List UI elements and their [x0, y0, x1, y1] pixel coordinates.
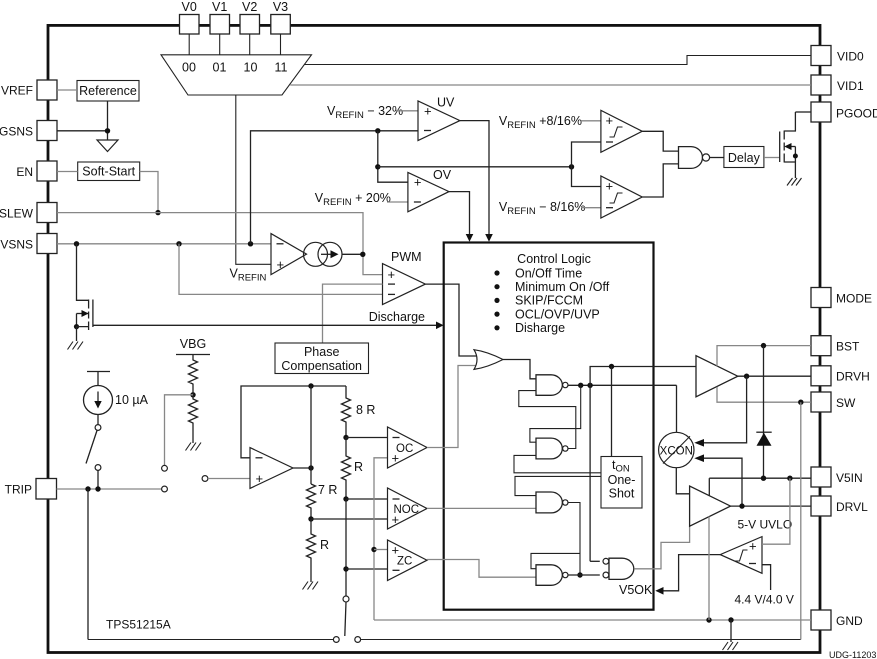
OR gate [474, 350, 503, 370]
svg-text:5-V UVLO: 5-V UVLO [738, 518, 793, 532]
comparator A (pgood high) [601, 110, 642, 152]
svg-text:+: + [256, 471, 264, 486]
node VSNS uv/ov tap [248, 241, 253, 246]
wire VSNS to UV - input [251, 131, 419, 244]
wire XCON feed [676, 385, 678, 432]
wire driver to SW [717, 387, 811, 402]
node VSNS pwm tap [176, 241, 181, 246]
wire NOC - input [346, 498, 388, 500]
wire opamp feedback [241, 386, 346, 458]
wire OC output to OR input [427, 366, 478, 448]
svg-text:OV: OV [433, 168, 452, 182]
wire mux to VID0 [304, 56, 811, 65]
pin MODE [811, 288, 872, 308]
svg-text:+: + [388, 267, 396, 282]
wire GSNS to ground node [57, 130, 108, 132]
current source gm output [304, 242, 343, 266]
wire SW down to bottom rail [800, 402, 802, 639]
ground (signal gnd triangle) [97, 140, 118, 152]
node V5IN diode tap [761, 476, 766, 481]
arrow discharge into control logic [436, 322, 444, 330]
NAND N1 [536, 375, 568, 396]
wire N4 output to V5OK gate input B [568, 574, 600, 576]
svg-text:ZC: ZC [397, 556, 412, 568]
wire V2 to mux [249, 34, 251, 55]
wire ZC - input [346, 568, 388, 570]
pin VSNS [0, 234, 57, 254]
svg-text:VSNS: VSNS [0, 238, 33, 252]
svg-text:+: + [414, 175, 422, 190]
wire TRIP pin to contacts [57, 488, 162, 490]
wire VREFIN+20% to OV - [387, 201, 408, 203]
switch lower contact [95, 465, 101, 471]
soft-start block [78, 162, 140, 181]
resistor R lower-left [307, 519, 316, 582]
svg-text:V1: V1 [212, 0, 227, 14]
node 8R bottom / OC - [343, 435, 348, 440]
node feedback top [308, 383, 313, 388]
phase compensation block [275, 343, 369, 374]
pin VID1 [811, 75, 864, 95]
node TRIP b [95, 486, 100, 491]
pin SW [811, 392, 856, 412]
arrow V5OK into box [655, 587, 663, 595]
svg-text:Phase: Phase [304, 345, 339, 359]
wire tON to N3 input [515, 476, 601, 495]
node R bottom / NOC - [343, 496, 348, 501]
wire ladder down to ZC - [345, 499, 347, 596]
wire bottom rail right to SW [361, 639, 801, 641]
svg-text:XCON: XCON [660, 445, 693, 457]
svg-text:+: + [424, 103, 432, 118]
svg-text:10 µA: 10 µA [115, 393, 149, 407]
op-amp NOC comparator [388, 488, 428, 529]
wire DRVH output [738, 375, 811, 377]
svg-text:11: 11 [275, 61, 288, 75]
VBG rail bar [176, 354, 210, 356]
wire OR output to NAND1 [503, 360, 536, 379]
wire VSNS to PWM input 3 [179, 244, 383, 295]
wire output to top rail [310, 386, 312, 484]
svg-text:PWM: PWM [391, 250, 422, 264]
wire UV branch down to OV + [378, 131, 408, 182]
svg-text:Disharge: Disharge [515, 321, 565, 335]
svg-text:DRVH: DRVH [836, 370, 870, 384]
arrow OV into control logic [466, 234, 474, 242]
svg-text:Compensation: Compensation [281, 359, 362, 373]
node N4 out [577, 572, 582, 577]
resistor VBG upper [189, 355, 198, 391]
node OV plus branch [375, 164, 380, 169]
pin BST [811, 336, 860, 356]
svg-text:TRIP: TRIP [5, 483, 32, 497]
svg-text:GND: GND [836, 614, 863, 628]
bottom switch contact right [355, 637, 361, 643]
wire V5IN to UVLO + [762, 478, 790, 544]
wire low driver to GND rail [708, 517, 710, 621]
svg-text:4.4 V/4.0 V: 4.4 V/4.0 V [735, 593, 794, 607]
wire V0 to mux [188, 34, 190, 55]
control logic block frame [444, 243, 654, 610]
wire V3 to mux [280, 34, 282, 55]
wire N1 node to driver rail [590, 367, 696, 562]
node soft-start / SLEW [155, 210, 160, 215]
node N1 out a [578, 383, 583, 388]
pin DRVH [811, 366, 870, 386]
svg-text:+: + [392, 512, 400, 527]
svg-text:Delay: Delay [728, 151, 761, 165]
svg-text:On/Off Time: On/Off Time [515, 266, 582, 280]
node BST diode tap [761, 343, 766, 348]
svg-text:Minimum On /Off: Minimum On /Off [515, 280, 610, 294]
svg-text:VBG: VBG [180, 337, 206, 351]
node DRVL tap [739, 503, 744, 508]
svg-text:SW: SW [836, 396, 856, 410]
pin V3 [271, 0, 291, 34]
wire N1 output to XCON [568, 384, 677, 386]
wire DRVH to XCON arrow [704, 376, 747, 443]
svg-text:V5IN: V5IN [836, 471, 863, 485]
pin V5IN [811, 467, 863, 487]
wire soft-start to SLEW line [140, 172, 158, 213]
wire VBG resistor to ground [192, 431, 194, 443]
svg-text:+: + [392, 451, 400, 466]
svg-text:Shot: Shot [609, 487, 635, 501]
wire current source to PWM node [342, 253, 363, 255]
transistor pgood FET [780, 112, 798, 178]
contact opamp side [202, 476, 208, 482]
wire TRIP down to bottom rail [87, 489, 89, 640]
op-amp OCP buffer [250, 448, 293, 489]
svg-text:One-: One- [608, 473, 636, 487]
node GND driver tap [706, 617, 711, 622]
diode bootstrap [756, 346, 771, 479]
pin EN [16, 161, 57, 181]
wire VREFIN-32% to UV + [396, 110, 418, 112]
node PWM + / slew [360, 252, 365, 257]
op-amp ZC comparator [388, 540, 428, 581]
svg-text:V2: V2 [242, 0, 257, 14]
wire +8/16% to comparator A + [581, 120, 601, 122]
pin VID0 [811, 46, 864, 66]
wire contact to opamp + [208, 478, 250, 480]
wire N2 out to N1 input (latch) [519, 391, 576, 449]
NAND N3 [536, 492, 568, 513]
op-amp VREFIN error amp [230, 234, 307, 284]
resistor 7R [307, 484, 316, 519]
svg-text:Discharge: Discharge [369, 310, 425, 324]
wire reference to ground node [107, 101, 109, 140]
delay block [724, 147, 764, 168]
wire UV output to control logic [460, 121, 489, 235]
pin GSNS [0, 121, 57, 141]
svg-text:Reference: Reference [79, 84, 137, 98]
svg-text:TPS51215A: TPS51215A [106, 618, 171, 632]
ground under R ladder [303, 582, 319, 590]
svg-text:VID0: VID0 [837, 50, 864, 64]
switch top contact [95, 425, 101, 431]
node 8/16 branch [569, 164, 574, 169]
op-amp OV comparator [408, 168, 452, 212]
switch blade (open) [86, 431, 97, 464]
node 7R bottom [308, 516, 313, 521]
contact VBG side [162, 465, 168, 471]
wire opamp output [293, 467, 311, 469]
svg-text:01: 01 [213, 61, 227, 75]
svg-text:V5OK: V5OK [619, 583, 653, 597]
contact TRIP side [162, 486, 168, 492]
ground at GND rail [723, 642, 739, 650]
pin DRVL [811, 496, 868, 516]
op-amp PWM comparator [383, 250, 426, 305]
resistor R mid [342, 438, 351, 500]
wire to comparator A - input [572, 142, 601, 167]
wire OCP node to GND rail [374, 619, 811, 621]
tON one-shot block [601, 457, 642, 509]
wire VREF to reference [57, 89, 77, 91]
pin PGOOD [811, 102, 877, 122]
wire N3 output down [568, 503, 580, 576]
ground under pgood fet [787, 178, 802, 186]
node UV minus branch [375, 128, 380, 133]
svg-text:Control Logic: Control Logic [517, 252, 591, 266]
wire SLEW to PWM + node [57, 213, 383, 275]
node ZC - tap [343, 566, 348, 571]
svg-text:SKIP/FCCM: SKIP/FCCM [515, 294, 583, 308]
svg-text:VID1: VID1 [837, 79, 864, 93]
node VBG divider tap [190, 392, 195, 397]
node SW tap [798, 400, 803, 405]
control logic title and bullets [494, 252, 609, 335]
wire BST to driver [717, 346, 811, 367]
node ZC + tap [371, 547, 376, 552]
AND gate V5OK (bubbled inputs) [603, 558, 634, 579]
svg-text:UDG-11203: UDG-11203 [829, 650, 876, 659]
pin V1 [210, 0, 230, 34]
wire delay to pgood fet gate [764, 157, 780, 159]
wire V5IN rail [709, 477, 811, 479]
wire V5IN to low driver [708, 478, 710, 496]
node TRIP a [85, 486, 90, 491]
wire DRVL output [731, 505, 812, 507]
wire NOC output to N3 input [427, 507, 536, 509]
svg-text:V0: V0 [182, 0, 197, 14]
op-amp OC comparator [388, 427, 428, 468]
svg-text:+: + [606, 179, 614, 194]
svg-text:BST: BST [836, 340, 860, 354]
op-amp 5V UVLO comparator [720, 537, 762, 574]
wire -8/16% to comparator B - [581, 207, 601, 209]
wire drop to tON one-shot [611, 367, 613, 457]
wire ZC + input [374, 549, 388, 551]
wire GND tap to ground [730, 620, 732, 642]
svg-text:DRVL: DRVL [836, 500, 868, 514]
wire NOC + input [311, 518, 388, 520]
wire N1 out to N2 input [530, 385, 581, 442]
wire phase compensation to PWM - input [323, 284, 383, 343]
comparator B (pgood low) [601, 176, 642, 218]
wire XCON to low driver input [676, 468, 689, 494]
svg-text:VREF: VREF [1, 84, 33, 98]
mux DAC selector [161, 55, 312, 95]
wire contact to TRIP line [97, 470, 99, 489]
wire UVLO - threshold stub [762, 565, 771, 590]
wire feedback to 8/16 comparators [378, 166, 572, 168]
ground under discharge fet [68, 342, 84, 350]
node VSNS discharge tap [74, 241, 79, 246]
reference block [77, 81, 139, 102]
node opamp output [308, 465, 313, 470]
wire tON to N2 input [514, 455, 601, 472]
svg-text:+: + [749, 539, 757, 554]
wire OV output to control logic [449, 192, 470, 235]
transistor discharge FET [74, 244, 93, 341]
svg-text:SLEW: SLEW [0, 207, 34, 221]
svg-text:R: R [354, 460, 363, 474]
buffer high-side driver [696, 356, 738, 397]
pin TRIP [5, 479, 57, 500]
NAND N4 [536, 565, 568, 586]
svg-text:7 R: 7 R [318, 483, 337, 497]
wire N1 node to V5OK gate input A [590, 560, 600, 562]
svg-text:8 R: 8 R [356, 403, 375, 417]
NAND pgood gate [679, 147, 710, 169]
svg-text:+: + [277, 257, 285, 272]
pin V0 [180, 0, 200, 34]
wire discharge gate to control logic [93, 324, 437, 326]
arrow into XCON lower [694, 454, 704, 462]
current source 10uA [84, 372, 149, 415]
wire EN to soft-start [57, 171, 78, 173]
svg-text:V3: V3 [273, 0, 288, 14]
svg-text:R: R [320, 538, 329, 552]
wire N3 loop to N4 input [531, 553, 580, 568]
wire UVLO comparator to V5OK arrow [663, 555, 720, 591]
svg-text:GSNS: GSNS [0, 125, 33, 139]
NAND N2 [536, 438, 568, 459]
wire DRVL to XCON arrow [704, 458, 742, 506]
node tON drop [609, 364, 614, 369]
svg-text:MODE: MODE [836, 292, 872, 306]
wire OC - input [346, 437, 388, 439]
op-amp UV comparator [418, 96, 460, 141]
pin SLEW [0, 203, 57, 223]
svg-text:EN: EN [16, 165, 33, 179]
node GND symbol tap [728, 617, 733, 622]
wire NAND to delay [710, 157, 724, 159]
bottom switch contact left [333, 637, 339, 643]
pin GND [811, 610, 863, 630]
wire bottom rail left [88, 639, 333, 641]
wire to comparator B + input [572, 167, 601, 187]
wire mux output VREFIN to error amp + input [236, 95, 271, 264]
ground under VBG divider [186, 443, 202, 451]
wire 10uA to switch [97, 415, 99, 425]
svg-text:PGOOD: PGOOD [836, 107, 877, 121]
wire comparator B to NAND [642, 164, 678, 197]
svg-text:OCL/OVP/UVP: OCL/OVP/UVP [515, 307, 600, 321]
svg-text:+: + [606, 113, 614, 128]
svg-text:10: 10 [244, 61, 258, 75]
arrow into XCON upper [694, 439, 704, 447]
wire comparator A to NAND [642, 131, 678, 151]
node V5IN uvlo tap [787, 476, 792, 481]
wire mux to VID1 [290, 84, 811, 86]
wire ZC output to N4 input [427, 560, 536, 578]
wire VSNS to error amp - input [57, 243, 271, 245]
bottom switch top contact [343, 596, 349, 602]
wire PWM output into control logic [425, 284, 477, 356]
node GSNS junction [105, 128, 110, 133]
wire OC + column [374, 458, 388, 620]
XCON block [659, 432, 694, 467]
resistor 8R [342, 386, 351, 438]
node DRVH tap [744, 374, 749, 379]
pin VREF [1, 80, 57, 100]
wire VBG tap to switch contact [165, 395, 194, 465]
buffer low-side driver [690, 486, 731, 526]
wire V5OK gate output to DRVL enable [634, 526, 689, 569]
resistor VBG lower [189, 390, 198, 431]
arrow UV into control logic [485, 234, 493, 242]
svg-text:Soft-Start: Soft-Start [82, 165, 135, 179]
node N1 out b [587, 383, 592, 388]
svg-text:UV: UV [437, 96, 455, 110]
wire pgood fet drain to PGOOD pin [795, 111, 811, 113]
bottom switch blade [345, 602, 346, 636]
svg-text:00: 00 [182, 61, 196, 75]
wire V1 to mux [219, 34, 221, 55]
pin V2 [240, 0, 260, 34]
